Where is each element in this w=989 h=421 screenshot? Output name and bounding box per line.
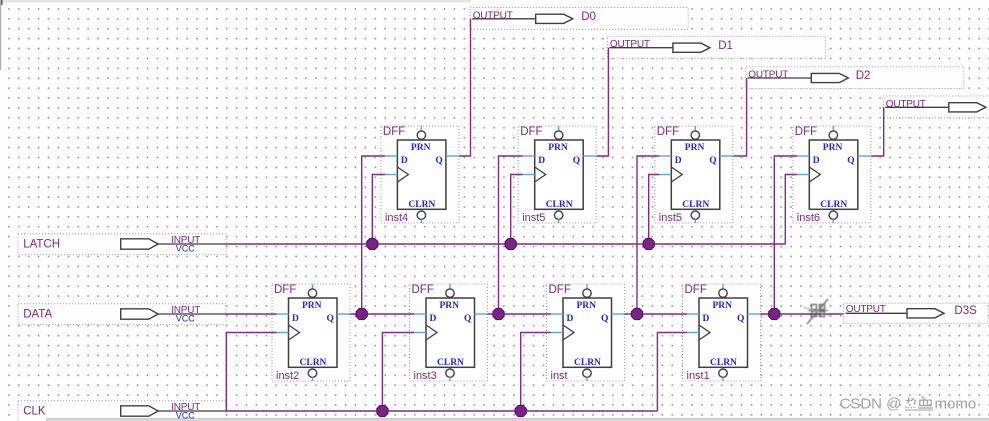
svg-text:momo: momo — [935, 396, 977, 413]
svg-text:CSDN @: CSDN @ — [840, 396, 902, 413]
svg-text:LATCH: LATCH — [23, 238, 60, 250]
svg-text:D1: D1 — [718, 40, 733, 52]
svg-text:inst5: inst5 — [659, 212, 682, 224]
svg-text:inst6: inst6 — [797, 212, 820, 224]
svg-text:DATA: DATA — [23, 308, 52, 320]
svg-text:inst1: inst1 — [687, 370, 710, 382]
svg-text:OUTPUT: OUTPUT — [846, 304, 886, 315]
svg-text:inst2: inst2 — [276, 370, 299, 382]
svg-text:D0: D0 — [581, 11, 596, 23]
svg-text:inst: inst — [551, 370, 568, 382]
svg-text:inst5: inst5 — [522, 212, 545, 224]
svg-text:inst3: inst3 — [414, 370, 437, 382]
svg-text:D2: D2 — [856, 70, 871, 82]
svg-text:CLK: CLK — [23, 406, 46, 418]
svg-text:D3S: D3S — [954, 305, 977, 317]
svg-text:inst4: inst4 — [385, 212, 408, 224]
